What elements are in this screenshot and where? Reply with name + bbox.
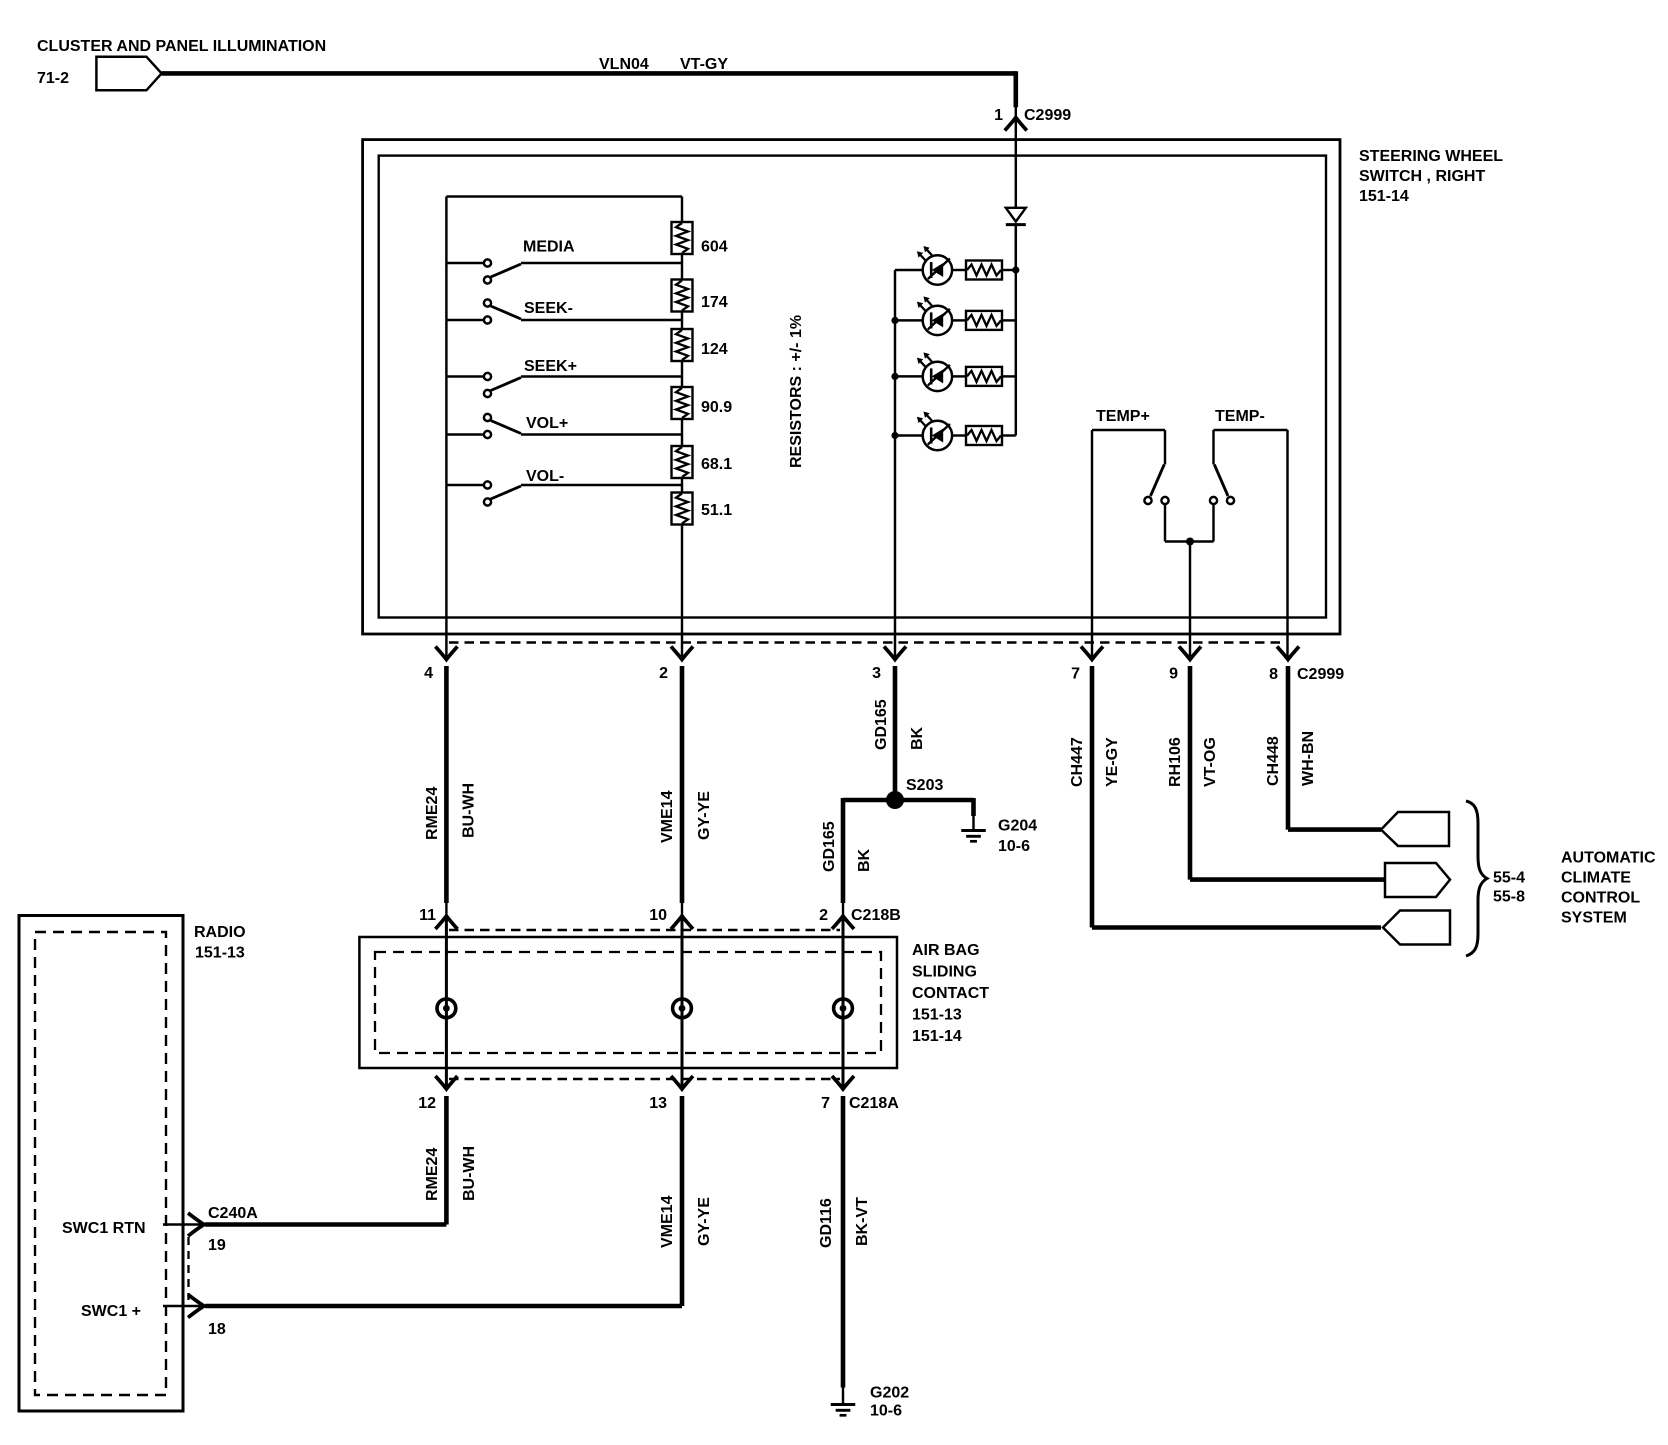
label STEERING WHEEL SWITCH , RIGHT 151-14 (1359, 148, 1503, 205)
switch TEMP+ (1092, 430, 1190, 660)
svg-text:55-4: 55-4 (1493, 870, 1525, 887)
pin 18 arrow (188, 1295, 204, 1318)
svg-text:RESISTORS : +/- 1%: RESISTORS : +/- 1% (788, 315, 805, 468)
air bag sliding contact box (359, 937, 897, 1068)
svg-text:68.1: 68.1 (701, 456, 732, 473)
pin 2 arrow (671, 647, 693, 660)
brace to climate control system (1466, 801, 1487, 956)
svg-text:YE-GY: YE-GY (1104, 737, 1121, 787)
svg-text:RADIO: RADIO (194, 924, 246, 941)
svg-text:604: 604 (701, 239, 728, 256)
svg-text:STEERING WHEEL: STEERING WHEEL (1359, 148, 1503, 165)
pin 9 arrow (1179, 647, 1201, 660)
switch SEEK+ (446, 373, 682, 397)
svg-text:G202: G202 (870, 1385, 909, 1402)
svg-text:AIR BAG: AIR BAG (912, 942, 980, 959)
svg-text:BK-VT: BK-VT (854, 1197, 871, 1246)
resistor 51.1 (672, 493, 693, 525)
pin 4 arrow (435, 647, 457, 660)
svg-text:RME24: RME24 (424, 1148, 441, 1201)
label G204 10-6 (998, 818, 1037, 856)
svg-text:CLUSTER AND PANEL ILLUMINATION: CLUSTER AND PANEL ILLUMINATION (37, 38, 326, 55)
ground G204 (961, 829, 986, 832)
svg-text:174: 174 (701, 294, 728, 311)
LED ladder left bus (894, 270, 896, 660)
wire CH448 WH-BN pin8 to climate connector (1288, 666, 1381, 830)
svg-text:11: 11 (419, 907, 436, 924)
label AIR BAG SLIDING CONTACT 151-13 151-14 (912, 942, 989, 1045)
svg-text:SLIDING: SLIDING (912, 964, 977, 981)
LED resistor 4 (966, 426, 1016, 445)
junction node TEMP common (1186, 538, 1194, 661)
svg-text:CH447: CH447 (1069, 737, 1086, 787)
C218B pin 2 arrow (832, 916, 854, 929)
wire CH447 YE-GY pin7 to climate connector (1092, 666, 1381, 928)
svg-text:SYSTEM: SYSTEM (1561, 910, 1627, 927)
radio pin 19 wire stub (163, 1223, 204, 1225)
wire RME24 BU-WH C218A pin12 to radio (205, 1096, 446, 1225)
wire GD116 BK-VT C218A pin7 to ground G202 (841, 1096, 846, 1404)
svg-text:C218A: C218A (849, 1095, 899, 1112)
svg-text:BU-WH: BU-WH (461, 783, 478, 838)
svg-text:10-6: 10-6 (870, 1403, 902, 1420)
wire RME24 BU-WH pin4 to C218B pin 11 (444, 666, 449, 903)
connector C240A dashed link (187, 1237, 189, 1300)
svg-text:SWITCH , RIGHT: SWITCH , RIGHT (1359, 168, 1485, 185)
wire through sliding contact RME24 (445, 916, 448, 1089)
svg-text:19: 19 (208, 1237, 226, 1254)
LED ladder right bus (1015, 226, 1017, 436)
svg-text:7: 7 (821, 1095, 830, 1112)
svg-text:18: 18 (208, 1321, 226, 1338)
switch assembly common bus (left) and top bar (446, 197, 682, 661)
radio box (19, 916, 183, 1412)
C218B pin 11 arrow (435, 916, 457, 929)
svg-text:GY-YE: GY-YE (696, 791, 713, 840)
svg-text:CH448: CH448 (1265, 736, 1282, 786)
svg-text:8: 8 (1269, 666, 1278, 683)
pin 7 arrow (1081, 647, 1103, 660)
svg-text:VME14: VME14 (659, 790, 676, 843)
svg-text:C2999: C2999 (1024, 107, 1071, 124)
wire from pin1 into box to diode (1015, 139, 1017, 208)
radio pin 18 wire stub (163, 1305, 204, 1307)
LED resistor 2 (966, 311, 1016, 330)
svg-text:C2999: C2999 (1297, 666, 1344, 683)
resistor 604 (672, 222, 693, 254)
svg-text:BK: BK (856, 848, 873, 872)
wire through sliding contact GD165 (842, 916, 845, 1089)
pin 8 arrow (1277, 647, 1299, 660)
svg-text:2: 2 (659, 665, 668, 682)
pin 1 arrow into connector C2999 (1005, 118, 1027, 131)
steering wheel switch right box outer (363, 140, 1340, 634)
climate connector terminal VT-OG (1385, 863, 1450, 897)
svg-text:RME24: RME24 (424, 787, 441, 840)
wire VME14 GY-YE pin2 to C218B pin 10 (680, 666, 685, 903)
C218A pin 12 arrow (435, 1076, 457, 1089)
svg-text:C218B: C218B (851, 907, 901, 924)
switch MEDIA (446, 259, 682, 283)
LED 4 (895, 412, 966, 451)
connector C2999 dashed line (449, 641, 1284, 644)
LED 1 (895, 246, 966, 285)
svg-text:1: 1 (994, 107, 1003, 124)
svg-text:BK: BK (909, 726, 926, 750)
svg-text:151-13: 151-13 (912, 1007, 962, 1024)
switch SEEK- (446, 299, 682, 323)
LED resistor 3 (966, 367, 1016, 386)
ground G202 (831, 1403, 856, 1406)
wire VLN04 VT-GY from 71-2 to pin 1 C2999 (162, 71, 1016, 139)
svg-text:RH106: RH106 (1167, 737, 1184, 787)
svg-text:10: 10 (649, 907, 667, 924)
label RADIO 151-13 (194, 924, 246, 962)
svg-text:7: 7 (1071, 666, 1080, 683)
node 71-2 cluster and panel illumination connector (96, 57, 161, 91)
svg-text:10-6: 10-6 (998, 838, 1030, 855)
wire diode to LED ladder bus (1015, 226, 1017, 270)
svg-text:90.9: 90.9 (701, 399, 732, 416)
svg-text:VLN04: VLN04 (599, 56, 649, 73)
svg-text:C240A: C240A (208, 1205, 258, 1222)
wire through sliding contact VME14 (681, 916, 684, 1089)
climate connector terminal YE-GY (1383, 911, 1450, 945)
resistor 90.9 (672, 387, 693, 419)
connector C218B dashed line (449, 929, 840, 932)
label G202 10-6 (870, 1385, 909, 1420)
switch TEMP- (1190, 430, 1288, 660)
svg-text:S203: S203 (906, 777, 943, 794)
wire RH106 VT-OG pin9 to climate connector (1190, 666, 1385, 880)
svg-text:71-2: 71-2 (37, 70, 69, 87)
svg-text:VT-OG: VT-OG (1202, 737, 1219, 787)
wire VME14 GY-YE C218A pin13 to radio (205, 1096, 682, 1306)
label AUTOMATIC CLIMATE CONTROL SYSTEM (1561, 850, 1656, 927)
LED 3 (895, 352, 966, 391)
pin 3 arrow (884, 647, 906, 660)
LED resistor 1 (966, 261, 1016, 280)
svg-text:51.1: 51.1 (701, 502, 732, 519)
svg-text:SEEK+: SEEK+ (524, 358, 577, 375)
svg-text:CONTACT: CONTACT (912, 985, 989, 1002)
C218B pin 10 arrow (671, 916, 693, 929)
svg-text:GD165: GD165 (873, 699, 890, 750)
switch VOL+ (446, 414, 682, 438)
svg-text:WH-BN: WH-BN (1300, 731, 1317, 786)
steering wheel switch right box inner (379, 156, 1326, 618)
C218A pin 13 arrow (671, 1076, 693, 1089)
svg-text:12: 12 (418, 1095, 436, 1112)
svg-text:TEMP+: TEMP+ (1096, 408, 1150, 425)
wire GD165 BK S203 to C218B pin 2 (841, 798, 846, 903)
svg-text:151-13: 151-13 (195, 945, 245, 962)
climate connector terminal WH-BN (1381, 812, 1449, 846)
svg-text:GD165: GD165 (821, 821, 838, 872)
svg-text:TEMP-: TEMP- (1215, 408, 1265, 425)
svg-text:G204: G204 (998, 818, 1037, 835)
resistor 124 (672, 329, 693, 361)
sliding contact ring 3 (834, 999, 853, 1018)
connector C218A dashed line (449, 1078, 840, 1081)
svg-text:9: 9 (1169, 666, 1178, 683)
svg-text:4: 4 (424, 665, 433, 682)
svg-text:CLIMATE: CLIMATE (1561, 870, 1631, 887)
switch VOL- (446, 481, 682, 505)
air bag sliding contact inner dashed (375, 952, 881, 1053)
resistor 174 (672, 280, 693, 312)
svg-text:AUTOMATIC: AUTOMATIC (1561, 850, 1656, 867)
splice S203 (843, 791, 974, 809)
svg-text:VT-GY: VT-GY (680, 56, 728, 73)
svg-text:BU-WH: BU-WH (461, 1146, 478, 1201)
svg-text:SEEK-: SEEK- (524, 300, 573, 317)
junction dots LED buses (891, 266, 1019, 439)
wire GD165 BK pin3 to splice S203 (893, 666, 898, 798)
svg-text:CONTROL: CONTROL (1561, 890, 1640, 907)
svg-text:151-14: 151-14 (1359, 188, 1409, 205)
svg-text:SWC1 +: SWC1 + (81, 1303, 141, 1320)
svg-text:3: 3 (872, 665, 881, 682)
sliding contact ring 1 (437, 999, 456, 1018)
svg-text:151-14: 151-14 (912, 1028, 962, 1045)
svg-text:VME14: VME14 (659, 1195, 676, 1248)
LED 2 (895, 296, 966, 335)
wire segments between ladder resistors (681, 254, 683, 660)
pin 19 arrow C240A (188, 1213, 204, 1236)
diode D1 (1006, 208, 1026, 225)
wire S203 to ground G204 (971, 798, 976, 830)
svg-text:124: 124 (701, 341, 728, 358)
svg-text:GY-YE: GY-YE (696, 1197, 713, 1246)
svg-text:VOL+: VOL+ (526, 415, 568, 432)
svg-text:13: 13 (649, 1095, 667, 1112)
svg-text:2: 2 (819, 907, 828, 924)
resistor 68.1 (672, 446, 693, 478)
svg-text:SWC1 RTN: SWC1 RTN (62, 1220, 146, 1237)
sliding contact ring 2 (673, 999, 692, 1018)
label 55-4 55-8 (1493, 870, 1525, 906)
C218A pin 7 arrow (832, 1076, 854, 1089)
svg-text:MEDIA: MEDIA (523, 239, 575, 256)
svg-text:55-8: 55-8 (1493, 889, 1525, 906)
svg-text:VOL-: VOL- (526, 468, 564, 485)
svg-text:GD116: GD116 (818, 1198, 835, 1248)
radio box inner dashed (35, 932, 166, 1395)
